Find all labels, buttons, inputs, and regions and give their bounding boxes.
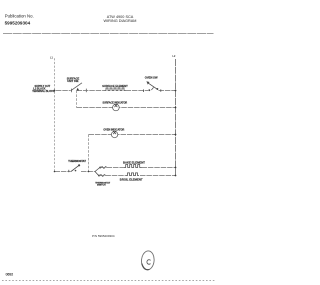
bake element heater — [124, 165, 142, 168]
wire row1 left (supply to switch) — [50, 90, 71, 92]
wire broil row — [99, 175, 126, 177]
thermostat switch — [69, 164, 80, 172]
svg-text:THERMOSTAT: THERMOSTAT — [68, 159, 86, 163]
wire bake row — [100, 167, 124, 169]
svg-text:5995209304: 5995209304 — [5, 21, 31, 26]
wire row1 middle — [77, 90, 105, 92]
broil element heater — [126, 173, 139, 176]
svg-text:0692: 0692 — [6, 273, 14, 277]
svg-text:OVEN SW: OVEN SW — [145, 76, 158, 80]
supply terminal label — [32, 85, 55, 93]
junction dots on buses — [54, 90, 177, 177]
branch wire indicator to thermostat row — [88, 135, 90, 172]
wire row2 surface indicator line — [77, 107, 176, 109]
surface element heater — [105, 88, 126, 91]
pigtail squiggle broil lead — [100, 175, 105, 177]
junction split to elements — [95, 167, 101, 177]
wire row1 to L2 — [159, 90, 176, 92]
terminal tick — [160, 89, 162, 92]
pigtail squiggle bake lead — [101, 167, 106, 169]
switch S2 oven switch — [146, 81, 158, 91]
svg-text:BROIL ELEMENT: BROIL ELEMENT — [120, 178, 143, 182]
wire broil row to L2 — [140, 175, 176, 177]
header rule — [3, 33, 214, 35]
svg-text:Publication No.: Publication No. — [5, 13, 34, 18]
wire row3 oven indicator line — [89, 134, 176, 136]
svg-text:OVEN INDICATOR: OVEN INDICATOR — [103, 129, 124, 132]
wire bake row to L2 — [142, 167, 176, 169]
L1 bus wire — [54, 58, 56, 171]
publication number block — [5, 13, 34, 25]
terminal tick — [143, 89, 145, 92]
lamp oven indicator — [111, 131, 117, 138]
svg-text:UNIT SW.: UNIT SW. — [67, 79, 79, 83]
stamp oval — [141, 250, 155, 270]
branch wire to surface indicator — [76, 91, 78, 108]
bottom dashed rule — [2, 280, 216, 282]
lamp surface indicator — [113, 104, 120, 111]
svg-text:WIRING DIAGRAM: WIRING DIAGRAM — [104, 19, 137, 23]
svg-text:SURFACE ELEMENT: SURFACE ELEMENT — [102, 84, 128, 88]
L2 bus wire — [175, 59, 177, 176]
wire row1 right of element — [126, 90, 149, 92]
switch S1 label — [67, 76, 80, 83]
svg-text:BAKE ELEMENT: BAKE ELEMENT — [123, 161, 145, 165]
wire row4 thermostat feed — [55, 171, 96, 173]
switch S1 surface unit switch — [71, 83, 87, 92]
thermostat switch label lower — [95, 181, 111, 186]
model title block — [104, 15, 137, 23]
svg-text:SURFACE INDICATOR: SURFACE INDICATOR — [102, 101, 127, 104]
svg-text:P/N 5995209304: P/N 5995209304 — [92, 234, 115, 238]
svg-text:SWITCH: SWITCH — [97, 185, 106, 187]
